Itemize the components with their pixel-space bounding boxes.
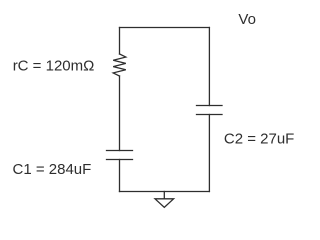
svg-text:C1 = 284uF: C1 = 284uF — [13, 161, 92, 178]
wire right upper — [208, 28, 210, 106]
wire right lower — [208, 115, 210, 192]
svg-text:rC = 120mΩ: rC = 120mΩ — [13, 58, 95, 75]
wire bottom — [120, 191, 210, 193]
capacitor C1 — [107, 151, 133, 160]
wire left middle — [119, 76, 121, 151]
resistor rC — [113, 54, 126, 76]
svg-text:Vo: Vo — [238, 11, 256, 28]
svg-text:C2 = 27uF: C2 = 27uF — [224, 130, 294, 147]
wire left upper — [119, 28, 121, 55]
wire top — [120, 27, 210, 29]
capacitor C2 — [197, 106, 223, 115]
wire left lower — [119, 160, 121, 192]
ground — [155, 192, 174, 208]
